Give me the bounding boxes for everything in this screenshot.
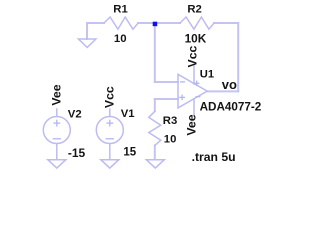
svg-text:-15: -15 — [68, 146, 86, 160]
resistor R3 body — [149, 111, 161, 145]
resistor R1 body — [104, 17, 138, 29]
wire plus input down to R3 — [154, 99, 156, 111]
ground G1 — [78, 39, 96, 47]
wire right rail down — [237, 23, 239, 91]
svg-text:.tran 5u: .tran 5u — [192, 150, 236, 164]
ground under R3 — [146, 160, 164, 168]
V1 plus sign — [107, 122, 113, 124]
voltage source V2 circle — [43, 117, 70, 144]
svg-text:R1: R1 — [113, 4, 127, 16]
V1 minus sign — [106, 138, 113, 140]
svg-text:Vee: Vee — [50, 84, 64, 105]
svg-text:Vcc: Vcc — [103, 86, 117, 108]
op-amp inverting input sign — [181, 81, 185, 83]
svg-text:ADA4077-2: ADA4077-2 — [200, 101, 262, 114]
voltage source V1 top pin — [109, 109, 111, 116]
svg-text:Vcc: Vcc — [186, 45, 200, 67]
op-amp V- sign — [196, 96, 200, 98]
svg-text:Vee: Vee — [184, 114, 198, 135]
op-amp non-inverting input sign — [180, 96, 184, 98]
op-amp U1 triangle — [178, 74, 207, 108]
svg-text:R3: R3 — [163, 115, 177, 127]
voltage source V2 top pin — [56, 109, 58, 116]
voltage source V2 bottom pin — [56, 144, 58, 160]
svg-text:V2: V2 — [68, 109, 82, 121]
wire junction down to inverting input — [154, 23, 156, 82]
node junction R1/R2/inverting input — [153, 22, 158, 27]
wire R1 to junction to R2 — [138, 22, 180, 24]
svg-text:15: 15 — [123, 146, 136, 158]
wire gnd to R1 — [87, 22, 104, 24]
svg-text:V1: V1 — [121, 108, 135, 120]
V2 plus sign — [54, 122, 60, 124]
svg-text:R2: R2 — [187, 4, 201, 16]
svg-text:10: 10 — [114, 33, 127, 45]
svg-text:10K: 10K — [185, 32, 207, 46]
op-amp V+ sign — [195, 82, 199, 84]
V2 minus sign — [53, 138, 60, 140]
wire to op-amp minus input — [155, 81, 178, 83]
ground under V2 — [48, 160, 66, 168]
resistor R2 body — [180, 17, 214, 29]
wire R2 to top-right corner — [214, 22, 238, 24]
svg-text:vo: vo — [222, 77, 237, 92]
wire to op-amp plus input — [155, 98, 178, 100]
svg-text:10: 10 — [164, 133, 177, 145]
ground under V1 — [101, 160, 119, 168]
wire stub G1 — [86, 23, 88, 39]
svg-text:U1: U1 — [200, 68, 214, 80]
wire R3 to ground — [154, 145, 156, 159]
wire output to right rail — [207, 90, 238, 92]
op-amp U1 Vee pin — [193, 99, 195, 116]
voltage source V1 circle — [96, 117, 123, 144]
voltage source V1 bottom pin — [109, 144, 111, 160]
op-amp U1 Vcc pin — [193, 65, 195, 85]
